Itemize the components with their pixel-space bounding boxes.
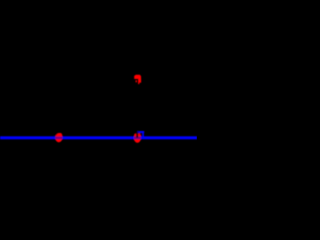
node C right prong: [138, 133, 141, 136]
black slash over node B: [54, 133, 58, 137]
node B upper slanted cap: [55, 133, 62, 136]
wire step segment (vertical): [142, 131, 144, 137]
marker A (red glyph above wire): [134, 75, 141, 84]
node C left prong: [134, 133, 136, 136]
node B (red dot on wire, left): [55, 133, 62, 142]
black notch over node C: [136, 131, 138, 138]
node B blend over wire: [55, 133, 62, 142]
node C blend over wire: [134, 134, 141, 143]
node C (red dot on wire, right): [134, 134, 141, 143]
wire step segment (horizontal): [137, 131, 144, 133]
wire (main blue line): [0, 136, 197, 139]
